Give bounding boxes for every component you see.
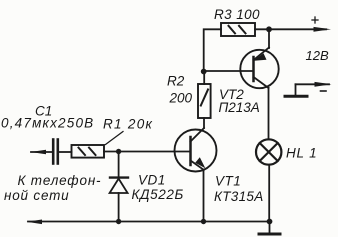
- diode VD1: [110, 178, 128, 193]
- wire node to VD1 cathode: [118, 152, 120, 178]
- transistor VT1: [175, 128, 217, 172]
- node VD1 bottom junction: [116, 219, 121, 224]
- lamp HL1: [256, 139, 281, 164]
- svg-text:П213А: П213А: [219, 100, 260, 115]
- capacitor C1: [53, 140, 58, 164]
- node junction R1/VD1: [116, 149, 121, 154]
- ground chassis bottom: [259, 222, 280, 235]
- arrow 12V supply: [314, 27, 332, 32]
- common terminal symbol: [285, 82, 332, 96]
- resistor R1: [72, 145, 105, 158]
- transistor VT2: [240, 48, 278, 89]
- minus polarity mark: [321, 90, 327, 92]
- svg-text:12В: 12В: [306, 48, 329, 63]
- svg-text:R2: R2: [167, 74, 185, 89]
- svg-text:ной сети: ной сети: [4, 188, 69, 203]
- svg-text:К телефон-: К телефон-: [18, 173, 102, 188]
- resistor R2: [198, 84, 211, 118]
- node lamp/ground junction: [267, 219, 273, 225]
- wire VT2 collector to lamp: [268, 88, 270, 139]
- leader line R1 label: [106, 132, 124, 145]
- plus polarity mark: [312, 17, 318, 23]
- wire R3 to top rail arrow: [255, 28, 326, 30]
- node VT1 emitter junction: [201, 219, 206, 224]
- arrow input top-left: [31, 150, 47, 155]
- svg-text:200: 200: [169, 91, 193, 106]
- svg-text:R1 20к: R1 20к: [103, 117, 153, 132]
- wire lamp to bottom rail: [268, 165, 270, 222]
- svg-text:HL 1: HL 1: [286, 146, 317, 161]
- resistor R3: [221, 23, 255, 36]
- svg-text:КТ315А: КТ315А: [214, 189, 264, 204]
- node R3/VT2 emitter junction: [266, 26, 272, 32]
- bottom rail wire: [28, 221, 270, 223]
- svg-text:0,47мкх250В: 0,47мкх250В: [1, 116, 94, 131]
- svg-text:VT1: VT1: [215, 174, 241, 189]
- svg-text:R3 100: R3 100: [214, 7, 260, 22]
- wire VT1 emitter to bottom rail: [203, 170, 205, 222]
- wire node up to R3: [204, 29, 221, 71]
- wire VT1 collector to R2: [203, 118, 205, 128]
- wire C1 to R1: [59, 151, 72, 153]
- wire input top-left to C1: [31, 151, 52, 153]
- wire R1 to VT1 base: [104, 151, 190, 153]
- wire VT2 emitter to top rail: [268, 29, 270, 48]
- svg-text:VD1: VD1: [138, 173, 166, 188]
- node R2/R3/VT2 base junction: [201, 69, 207, 75]
- svg-text:КД522Б: КД522Б: [132, 187, 184, 202]
- wire R2 top to node: [203, 72, 205, 85]
- wire node to VT2 base: [204, 70, 254, 72]
- arrow bottom-left: [27, 220, 43, 225]
- wire VD1 anode to bottom rail: [118, 193, 120, 221]
